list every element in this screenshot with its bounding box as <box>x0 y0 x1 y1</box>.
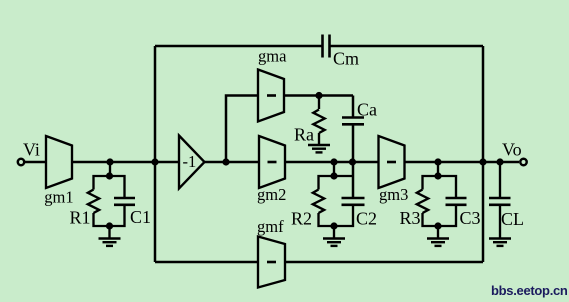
transconductor gma <box>258 70 284 122</box>
capacitor Ca <box>342 118 364 125</box>
wire left vertical node A to top and bottom rails <box>154 46 157 262</box>
wire right vertical from top rail through Vo node to bottom rail <box>482 46 485 262</box>
svg-text:R1: R1 <box>70 208 91 228</box>
svg-text:gmf: gmf <box>257 217 284 236</box>
wire gm1 output to -1 input <box>72 161 179 164</box>
wire CL top lead <box>499 162 501 197</box>
wire Ra top lead <box>318 96 320 110</box>
resistor R3 <box>417 190 428 214</box>
junction R2 C2 bottom <box>330 222 337 229</box>
wire R1 C1 bottom rail <box>94 205 125 226</box>
capacitor CL <box>489 198 511 205</box>
svg-text:C1: C1 <box>130 207 151 227</box>
terminal Vo <box>520 159 526 165</box>
capacitor C3 <box>446 198 467 205</box>
ground below R1 C1 <box>99 226 121 246</box>
wire bottom rail left segment to gmf input <box>155 261 258 264</box>
node right vertical crossing <box>479 158 486 165</box>
svg-text:Vo: Vo <box>502 139 522 159</box>
wire -1 output to gm2 input <box>204 161 259 164</box>
junction R2 C2 top <box>330 172 337 179</box>
svg-text:gm3: gm3 <box>379 185 408 204</box>
wire drop to R1 C1 junction <box>109 162 111 176</box>
minus sign of gmf <box>267 261 276 264</box>
capacitor C1 <box>114 198 135 205</box>
ground below Ra <box>308 133 330 152</box>
node A on main line <box>151 158 158 165</box>
svg-text:R3: R3 <box>400 208 421 228</box>
svg-text:bbs.eetop.cn: bbs.eetop.cn <box>491 283 568 298</box>
wire R3 C3 top rail <box>423 176 457 198</box>
transconductor gmf <box>258 237 285 288</box>
transconductor gm3 <box>379 136 405 188</box>
wire Ca bottom lead through main line to C2 top plate <box>352 124 355 198</box>
node after -1 <box>222 158 229 165</box>
wire R3 C3 bottom rail <box>423 205 457 226</box>
wire Ca top lead <box>352 96 355 118</box>
wire drop to R2 C2 junction <box>333 162 335 176</box>
wire gma input tap from -1 output node <box>226 96 258 163</box>
node R3 C3 tap <box>434 158 441 165</box>
node gma output <box>315 92 322 99</box>
wire R1 C1 top rail <box>94 176 125 197</box>
svg-text:R2: R2 <box>291 209 312 229</box>
resistor R1 <box>88 190 99 214</box>
inverting buffer -1 <box>179 136 205 189</box>
svg-text:Ra: Ra <box>294 125 314 145</box>
node R2 C2 tap <box>330 158 337 165</box>
wire CL bottom lead <box>499 205 501 239</box>
svg-text:C3: C3 <box>460 208 481 228</box>
ground below R3 C3 <box>427 226 449 246</box>
wire gmf output to right vertical <box>285 261 483 264</box>
transconductor gm2 <box>259 136 285 188</box>
terminal Vi <box>18 159 24 165</box>
svg-text:gm1: gm1 <box>44 188 73 207</box>
junction R3 C3 top <box>434 172 441 179</box>
node CL tap <box>496 158 503 165</box>
minus sign of gm3 <box>387 161 396 164</box>
wire R2 C2 top rail <box>319 176 354 190</box>
svg-text:Cm: Cm <box>333 49 359 69</box>
capacitor Cm <box>323 35 330 58</box>
wire main line input Vi to gm1 <box>25 161 46 164</box>
svg-text:Vi: Vi <box>23 139 40 159</box>
wire gm3 output to Vo terminal <box>404 161 519 164</box>
junction R3 C3 bottom <box>434 222 441 229</box>
wire drop to R3 C3 junction <box>437 162 439 176</box>
node Ca tap on main line <box>349 158 356 165</box>
svg-text:gma: gma <box>258 47 287 66</box>
wire R2 C2 bottom rail <box>319 205 354 226</box>
svg-text:-1: -1 <box>183 152 197 171</box>
transconductor gm1 <box>46 136 72 188</box>
resistor Ra <box>313 110 324 134</box>
wire top rail left segment to Cm <box>155 45 322 48</box>
minus sign of gma <box>267 94 276 97</box>
capacitor C2 <box>342 198 365 205</box>
ground below R2 C2 <box>323 226 345 246</box>
ground below CL <box>489 239 511 246</box>
junction R1 C1 top <box>106 172 113 179</box>
resistor R2 <box>313 190 324 214</box>
node after gm1 <box>106 158 113 165</box>
minus sign of gm2 <box>268 161 277 164</box>
svg-text:Ca: Ca <box>357 100 377 120</box>
svg-text:CL: CL <box>501 209 524 229</box>
junction R1 C1 bottom <box>106 222 113 229</box>
wire gm2 output to gm3 input <box>285 161 379 164</box>
wire gma output to Ca corner <box>284 94 353 97</box>
svg-text:C2: C2 <box>356 209 377 229</box>
svg-text:gm2: gm2 <box>257 185 286 204</box>
wire top rail right segment from Cm <box>330 45 483 48</box>
